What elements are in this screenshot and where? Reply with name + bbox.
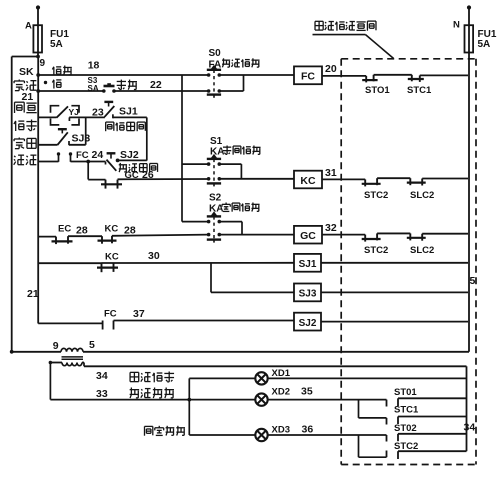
svg-text:KC: KC (300, 175, 316, 187)
wire S2 top out (219, 221, 242, 223)
svg-text:33: 33 (96, 388, 108, 400)
contact FC24 right tick (70, 155, 72, 162)
svg-text:KA: KA (210, 147, 224, 158)
label 阀空过载 (144, 426, 152, 435)
wire row 28 middle (68, 235, 102, 237)
svg-text:GC: GC (300, 230, 316, 242)
wire S1 top out (219, 163, 241, 165)
svg-text:SJ3: SJ3 (72, 133, 91, 145)
lamp XD1 (255, 372, 267, 384)
contact YJ bracket top-left (51, 106, 60, 113)
wire row C to join (113, 116, 147, 118)
wire S1 bottom out (219, 178, 294, 180)
wire GC row left (88, 179, 105, 181)
contact YJ bracket bottom-right (71, 119, 79, 125)
wire row D from bus (38, 144, 57, 146)
node 21 left vertical wire (11, 57, 13, 352)
contact ST02 line (398, 433, 467, 435)
wire SJ1 coil out (321, 262, 468, 264)
wire FC row drop to GC row (87, 162, 89, 180)
wire SJ2 output (118, 159, 147, 161)
svg-text:STC2: STC2 (364, 190, 388, 201)
wire GC row to S1 bottom (118, 178, 209, 180)
label 停 (52, 80, 61, 89)
wire XD1 branch up (188, 378, 190, 399)
svg-text:KA: KA (209, 204, 223, 215)
label 调试 (52, 67, 61, 76)
svg-text:XD2: XD2 (272, 387, 290, 398)
label 手动 (117, 80, 126, 90)
svg-text:FC: FC (104, 309, 117, 320)
wire bottom row right (83, 351, 469, 353)
node on bus row B (36, 89, 40, 93)
contact STC1 bridge (411, 75, 413, 82)
wire ST02 feed (359, 434, 387, 436)
wire S1 join vertical (240, 164, 242, 179)
contact SJ3 blade (57, 132, 67, 145)
pushbutton S2 top contact (207, 220, 211, 224)
svg-text:FC: FC (76, 150, 89, 161)
wire row 32 segment 1 (322, 234, 365, 236)
switch SA terminal right (112, 89, 116, 93)
callout leader line (366, 35, 394, 59)
contact GC26 bridge (105, 180, 107, 189)
wire row 31 segment 2 (377, 177, 410, 179)
svg-text:9: 9 (40, 58, 46, 69)
svg-text:S2: S2 (209, 193, 222, 204)
label 反冲时间 (119, 163, 127, 172)
contact ST01 gap ticks (386, 400, 388, 407)
svg-text:SLC2: SLC2 (410, 190, 434, 201)
pushbutton S0 link (213, 70, 215, 95)
pushbutton S1 bottom contact (207, 177, 211, 181)
svg-text:21: 21 (22, 91, 34, 103)
svg-text:SA: SA (88, 84, 99, 93)
wire XD2 out (268, 399, 359, 401)
wire SJ1 output drop (146, 117, 148, 160)
contact KC30 bridge (101, 263, 103, 272)
label 反冲过载 (130, 388, 140, 399)
wire S2 bottom out to GC coil (219, 234, 294, 236)
contact FC24 left tick (58, 155, 60, 162)
transformer T primary winding (61, 348, 83, 351)
svg-text:SJ3: SJ3 (299, 289, 317, 300)
wire row 32 segment 2 (377, 232, 410, 234)
contact STC2-32 bridge (364, 235, 366, 242)
label 间隔时间 (106, 122, 114, 131)
svg-text:S0: S0 (209, 48, 222, 59)
contact STC1 gap ticks (386, 418, 388, 425)
wire row 20 segment 2 (374, 74, 412, 76)
svg-text:N: N (453, 20, 460, 31)
svg-text:SLC2: SLC2 (410, 245, 434, 256)
wire row 28 to S2 bottom (112, 235, 209, 236)
contact STC2 gap ticks (386, 451, 388, 458)
wire row 37 from bus (38, 322, 102, 324)
contact SJ2 left tick (105, 162, 107, 165)
contact EC bridge (55, 237, 57, 245)
wire row B left (38, 90, 103, 92)
svg-text:STC2: STC2 (364, 245, 388, 256)
wire XD1 to bus (268, 377, 467, 379)
wire lamp return bus (466, 366, 468, 451)
wire row 20 segment 3 (420, 74, 468, 76)
svg-text:24: 24 (92, 149, 104, 161)
svg-text:EC: EC (58, 224, 71, 235)
wire row E middle (71, 161, 106, 163)
svg-text:18: 18 (88, 60, 100, 72)
coil KC box (294, 171, 322, 189)
wire row 34 (84, 365, 467, 367)
contact STC2 line (398, 450, 467, 452)
wire S0 bottom out (219, 90, 243, 92)
svg-text:A: A (25, 21, 32, 32)
coil SJ2 box (294, 313, 321, 331)
svg-text:32: 32 (325, 222, 337, 234)
svg-text:ST01: ST01 (394, 387, 417, 398)
svg-text:31: 31 (325, 167, 337, 179)
wire row 31 segment 1 (322, 178, 365, 180)
contact SLC2-31 bridge (409, 178, 411, 185)
contact SJ1 delay stem (108, 102, 110, 107)
label 定时 (14, 138, 24, 149)
label 冲洗 (14, 155, 24, 165)
wire row 30 from bus (38, 262, 101, 264)
svg-text:KC: KC (105, 252, 119, 263)
contact SJ1 blade (105, 106, 115, 117)
pushbutton S0 top contact (207, 73, 211, 77)
svg-text:5A: 5A (50, 39, 63, 50)
wire row D to join (69, 144, 86, 146)
lamp XD2 (255, 393, 267, 405)
svg-text:SJ2: SJ2 (120, 149, 139, 161)
contact SJ2 delay bar (107, 152, 116, 154)
pushbutton S1 top contact (207, 162, 211, 166)
wire node22 elbow to S2 top (182, 221, 209, 223)
contact ST02 gap ticks (386, 435, 388, 442)
contact YJ bracket top-right (71, 106, 79, 113)
bullet marker (44, 81, 47, 84)
SK controller box top edge (12, 56, 39, 58)
svg-text:KC: KC (105, 224, 119, 235)
wire row 33 to XD2 (50, 399, 255, 401)
wire row 32 segment 3 (422, 233, 468, 235)
svg-text:SJ1: SJ1 (119, 106, 138, 118)
node FC-GC junction (86, 160, 90, 164)
svg-text:9: 9 (53, 340, 59, 352)
wire row C middle (69, 116, 105, 118)
wire N bus vertical (468, 59, 470, 352)
coil GC box (294, 226, 322, 244)
contact YJ bracket bottom-left (51, 119, 60, 125)
wire row A 调试-18 (38, 74, 208, 76)
contact SJ2 right terminal (116, 159, 120, 163)
wire XD3 out (268, 434, 359, 436)
contact FC37 tick right (113, 321, 115, 330)
node on bus row A (36, 73, 40, 77)
fuse FU1 right (465, 25, 474, 52)
wire row E from bus (38, 161, 58, 163)
contact SJ2 blade (107, 160, 117, 171)
switch SA terminal left (102, 89, 106, 93)
svg-text:YJ: YJ (69, 107, 80, 117)
wire STC2 feed (358, 435, 360, 457)
contact KC28 bridge (101, 236, 103, 244)
switch SA knob (107, 83, 111, 86)
wire XD3 branch (188, 400, 190, 435)
contact SLC2-32 bridge (409, 233, 411, 240)
contact ST01 line (398, 397, 467, 399)
wire S0 top out (219, 74, 294, 76)
svg-text:STO1: STO1 (365, 85, 390, 96)
motor junction box dashed border (341, 58, 476, 60)
svg-text:30: 30 (148, 250, 160, 262)
contact YJ right tick (68, 117, 70, 121)
contact SJ1 delay bar (104, 101, 113, 103)
svg-text:20: 20 (325, 63, 337, 75)
wire phase A top terminal (36, 5, 40, 9)
svg-text:5: 5 (470, 275, 476, 287)
contact FC37 tick left (102, 321, 104, 330)
contact SJ1 right tick (112, 114, 114, 118)
wire A to fuse FU1 (37, 8, 39, 57)
svg-text:5A: 5A (478, 39, 491, 50)
wire row 30 drop to SJ3 (210, 263, 212, 293)
wire secondary left stub (50, 362, 62, 364)
fuse FU1 left (33, 25, 42, 52)
wire ST01 feed (359, 399, 387, 401)
svg-text:21: 21 (27, 288, 39, 300)
svg-text:XD3: XD3 (272, 425, 290, 436)
wire SJ2 coil out (321, 321, 468, 323)
wire row 28 from bus (38, 236, 56, 238)
node 21 corner (10, 350, 14, 354)
svg-text:STC1: STC1 (394, 405, 419, 416)
contact STC2-31 bridge (364, 179, 366, 186)
svg-text:S1: S1 (210, 136, 223, 147)
node XD1 branch (187, 398, 191, 402)
pushbutton S2 link (213, 216, 215, 239)
coil FC box (294, 66, 322, 84)
coil SJ3 box (294, 284, 321, 302)
svg-text:34: 34 (96, 370, 108, 382)
contact STC1 line (398, 416, 467, 418)
svg-text:36: 36 (302, 424, 314, 436)
node 9 left bus vertical (37, 57, 39, 324)
wire row 31 segment 3 (422, 178, 468, 180)
contact STO1 bridge (365, 76, 367, 83)
contact SJ3 delay stem (61, 129, 63, 133)
wire node 33 drop (49, 363, 51, 400)
label 信号 (14, 121, 24, 131)
svg-text:STC2: STC2 (394, 441, 418, 452)
transformer core (62, 356, 84, 358)
wire row B right (114, 90, 209, 92)
contact SJ2 delay stem (110, 153, 112, 158)
wire YJ-SJ3 join vertical (85, 117, 87, 144)
lamp XD3 (255, 429, 267, 441)
contact YJ blade (57, 106, 69, 117)
wire row 30 to SJ1 coil (102, 262, 295, 264)
contact SJ3 right tick (68, 141, 70, 145)
wire secondary right stub (82, 362, 84, 364)
svg-text:34: 34 (464, 422, 476, 434)
svg-text:STC1: STC1 (407, 85, 432, 96)
coil SJ1 box (294, 254, 321, 272)
label motor junction box 电机接线盒内 (315, 21, 323, 30)
wire S2 join vertical (241, 222, 243, 235)
label 压差 (15, 102, 25, 113)
wire bottom row left (12, 351, 61, 353)
svg-text:ST02: ST02 (394, 423, 417, 434)
wire SJ3 coil out (321, 291, 468, 293)
pushbutton S0 bottom contact (207, 89, 211, 93)
svg-text:37: 37 (133, 308, 145, 320)
wire N to fuse FU1 right (468, 8, 470, 59)
wire neutral N top terminal (467, 5, 471, 9)
node 22 vertical bus (181, 75, 183, 222)
svg-text:FC: FC (301, 71, 315, 83)
transformer T secondary winding (62, 363, 82, 366)
svg-text:SK: SK (19, 66, 34, 78)
wire S0 join vertical (243, 75, 245, 91)
label 电源指示 (130, 372, 139, 381)
switch SA bridge (104, 85, 115, 88)
svg-text:23: 23 (92, 107, 104, 119)
label 运行 (14, 80, 24, 91)
svg-text:SJ2: SJ2 (299, 318, 317, 329)
svg-text:28: 28 (76, 225, 88, 237)
svg-text:35: 35 (301, 386, 313, 398)
contact SJ3 delay bar (58, 128, 67, 130)
wire row C from bus (38, 116, 56, 118)
pushbutton S1 link (213, 159, 215, 184)
wire to SJ3 coil (211, 291, 294, 293)
wire S1 top feed (182, 163, 209, 165)
svg-text:XD1: XD1 (272, 368, 291, 379)
wire row 20 segment 1 (322, 75, 366, 77)
svg-text:5: 5 (89, 339, 95, 351)
wire row 37 to SJ2 coil (114, 320, 295, 322)
pushbutton S2 bottom contact (207, 233, 211, 237)
callout underline (313, 34, 366, 36)
svg-text:22: 22 (150, 79, 162, 91)
svg-text:SJ1: SJ1 (299, 259, 317, 270)
wire STC1 feed (358, 400, 360, 418)
